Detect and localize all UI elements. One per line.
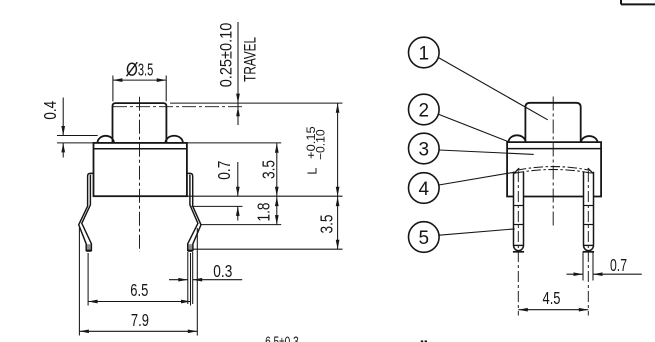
leader line 5 to terminal — [439, 229, 515, 235]
drawing frame corner top right — [620, 0, 622, 4]
svg-text:0.7: 0.7 — [214, 161, 234, 180]
travel dimension line — [237, 22, 239, 125]
svg-text:TRAVEL: TRAVEL — [242, 37, 260, 82]
leg kink reference line — [201, 224, 281, 226]
svg-text:6.5±0.3: 6.5±0.3 — [265, 335, 299, 342]
dimension L total height line — [337, 103, 339, 249]
svg-text:3.5: 3.5 — [317, 215, 337, 234]
dimension 6.5 extension lines — [87, 253, 89, 306]
svg-text:4.5: 4.5 — [543, 288, 561, 308]
dimension 0.4 line and arrows — [62, 98, 64, 136]
plate top reference extension — [188, 142, 282, 144]
base reference line extension — [187, 195, 343, 197]
switch body front view — [507, 142, 601, 196]
svg-text:0.3: 0.3 — [213, 261, 232, 281]
svg-text:7.9: 7.9 — [131, 310, 149, 330]
balloon callout 3 — [409, 133, 440, 164]
dimension 6.5 line — [88, 301, 190, 303]
svg-text:0.7: 0.7 — [610, 255, 627, 275]
balloon callout 1 — [409, 37, 440, 68]
top plate lower edge (front view) — [507, 148, 601, 150]
dimension label ø3.5 — [127, 63, 136, 75]
dome bump right (front view) — [581, 136, 598, 142]
leader line 1 to plunger — [438, 58, 547, 120]
dimension 3.5 body height line — [276, 143, 278, 224]
left leg crimp marks — [514, 205, 524, 207]
leader line 3 to body — [439, 150, 534, 154]
horizontal chain line (pressed position) — [113, 106, 244, 108]
dimension 0.7 lead width extension lines — [582, 252, 584, 281]
top plate lower edge (side view) — [94, 148, 187, 150]
dimension 0.7 lead width lines — [567, 273, 584, 275]
svg-text:0.4: 0.4 — [40, 101, 60, 120]
svg-text:3.5: 3.5 — [259, 160, 279, 179]
dimension 7.9 line — [79, 330, 197, 332]
dimension 1.8 arrows — [275, 197, 279, 207]
svg-text:1.8: 1.8 — [254, 203, 274, 222]
inner metal dome lower chain arc — [515, 170, 592, 174]
vertical centerline front view — [552, 97, 554, 229]
leg shoulder reference line — [192, 205, 243, 207]
svg-text:4: 4 — [419, 179, 430, 200]
leg tip level reference line — [193, 248, 343, 250]
dimension 0.3 lines — [169, 279, 188, 281]
svg-text:5: 5 — [419, 228, 430, 249]
dimension 7.9 extension lines — [78, 228, 80, 336]
dome bump left (front view) — [509, 135, 526, 142]
button plunger front view — [525, 103, 580, 142]
dimension ø3.5 extension lines — [112, 76, 114, 102]
balloon callout 5 — [409, 222, 440, 253]
svg-text:3.5: 3.5 — [138, 59, 154, 79]
vertical centerline left view — [139, 97, 141, 252]
left terminal leg (front view) — [514, 172, 524, 251]
dimension 0.7 (body to shoulder) — [237, 162, 239, 196]
right leg centerline — [587, 171, 589, 316]
inner metal dome upper chain arc — [517, 167, 590, 171]
button top reference line — [170, 102, 343, 104]
svg-text:L: L — [305, 168, 320, 175]
right leg crimp marks — [584, 205, 594, 207]
dome bump left (side view) — [98, 136, 114, 143]
svg-text:−0.10: −0.10 — [314, 129, 328, 160]
dome bump right (side view) — [165, 136, 183, 143]
balloon callout 4 — [409, 173, 440, 204]
clipped title marks — [421, 340, 423, 342]
dimension 4.5 line — [518, 309, 588, 311]
right leg (side view) — [188, 244, 192, 250]
svg-text:1: 1 — [419, 43, 430, 64]
switch body (side view) — [94, 143, 187, 196]
button plunger left view — [113, 103, 167, 143]
left leg (side view) — [87, 244, 91, 250]
leader line 4 to inner contact — [439, 172, 516, 185]
dimension 3.5 leg length arrows — [336, 197, 340, 207]
left leg centerline — [517, 171, 519, 316]
balloon callout 2 — [409, 94, 440, 125]
svg-text:2: 2 — [419, 100, 430, 121]
leader line 2 to cover bump — [438, 114, 510, 142]
svg-text:3: 3 — [419, 139, 430, 160]
dimension ø3.5 line — [113, 79, 166, 81]
dimension 0.3 extension lines — [187, 252, 189, 304]
right terminal leg (front view) — [584, 172, 594, 251]
svg-text:6.5: 6.5 — [130, 280, 148, 300]
contact tab chamfer left — [514, 168, 519, 174]
svg-text:0.25±0.10: 0.25±0.10 — [218, 23, 236, 88]
dimension 0.4 extension lines — [57, 135, 98, 137]
contact tab chamfer right — [588, 168, 593, 174]
